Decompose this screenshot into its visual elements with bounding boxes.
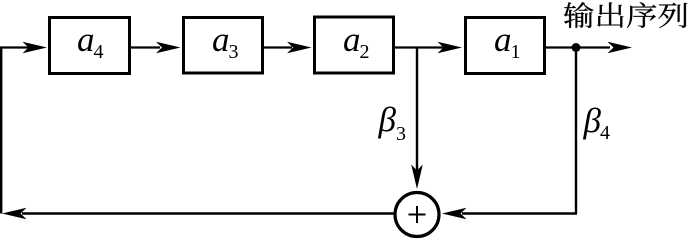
svg-text:4: 4	[600, 122, 610, 144]
wire: feedback vertical left edge	[0, 48, 2, 214]
svg-text:a: a	[212, 20, 230, 59]
svg-text:1: 1	[511, 41, 521, 63]
svg-text:a: a	[494, 20, 512, 59]
svg-text:β: β	[378, 100, 397, 139]
output label 输出序列	[564, 2, 687, 28]
wire a2 to a1	[395, 46, 443, 48]
svg-text:β: β	[583, 101, 602, 140]
adder plus sign	[409, 206, 426, 223]
wire a3 to a2	[263, 46, 292, 48]
arrow β4 into adder right	[442, 208, 467, 220]
wire β4 horizontal into adder	[462, 212, 577, 214]
arrow into a1	[438, 42, 463, 54]
register box a3	[184, 18, 263, 74]
wire adder output to left	[22, 212, 394, 214]
svg-text:3: 3	[396, 123, 406, 145]
svg-text:3: 3	[229, 41, 239, 63]
output arrow	[608, 42, 633, 54]
wire: input into a4	[0, 46, 30, 48]
wire a4 to a3	[131, 46, 160, 48]
arrow into a2	[287, 42, 312, 54]
tap wire β3 (from a2-a1 wire down to adder)	[416, 48, 418, 173]
register box a4	[50, 18, 130, 74]
arrow β3 into adder top	[411, 165, 423, 190]
wire a1 to output	[546, 46, 610, 48]
junction dot on output	[572, 43, 581, 52]
adder circle	[395, 193, 439, 237]
arrow into a3	[156, 42, 181, 54]
tap wire β4 vertical (from junction dot down)	[575, 48, 577, 214]
svg-text:a: a	[77, 20, 95, 59]
register box a1	[466, 18, 545, 74]
arrow feedback into left corner	[2, 208, 27, 220]
svg-text:4: 4	[94, 41, 104, 63]
register box a2	[315, 17, 394, 73]
svg-text:a: a	[343, 20, 361, 59]
svg-text:2: 2	[360, 41, 370, 63]
arrow into a4	[23, 42, 48, 54]
